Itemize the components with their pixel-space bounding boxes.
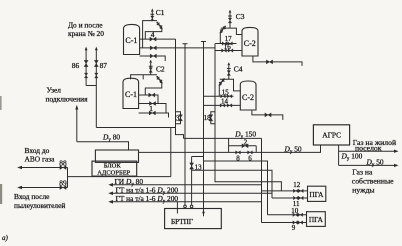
- valve 1: [149, 111, 155, 115]
- wire: C-2a inlet line (valves 17): [215, 43, 236, 45]
- vent candle C1: [150, 12, 154, 16]
- upper drier box: [95, 150, 138, 162]
- valves 16 (pair): [222, 49, 227, 52]
- vent candle C3: [228, 13, 232, 17]
- wire: drier box outlet / regeneration header: [192, 152, 204, 156]
- relief valve C-2b (diagonal, mirrored): [219, 78, 226, 86]
- valve 86 lower: [84, 73, 87, 78]
- vessel C-1 (lower separator): [123, 78, 139, 108]
- vessel C-1 (upper separator): [124, 24, 140, 54]
- BRTPG inlet circle (B3): [184, 205, 187, 208]
- valve 88: [60, 166, 66, 170]
- bus B3 (capped collector): [183, 44, 188, 205]
- wire: C-1a riser: [143, 21, 157, 48]
- wire: relief return C-2b: [218, 85, 220, 96]
- valves 15 (pair): [221, 95, 226, 98]
- wire: riser of crane 86: [85, 48, 87, 86]
- node arrow (узел подключения pointer): [76, 108, 78, 142]
- valves 10 (pair): [293, 213, 298, 216]
- wire: C-2a lower line (valves 16): [215, 50, 242, 52]
- wire: C-2b inlet line (valves 15): [204, 95, 234, 97]
- wire: branch y162.5 to PGA-2: [204, 161, 268, 215]
- valve on header (C-1a side): [150, 46, 156, 50]
- wire: valve 11 line: [272, 197, 308, 199]
- wire: branch y170.3 to PGA: [192, 170, 272, 198]
- wire: relief return C-1a: [145, 28, 162, 39]
- wire: Dy50 line to AGRS: [139, 145, 321, 152]
- valve 3: [179, 115, 183, 121]
- valve on C-2a drain: [266, 60, 272, 64]
- valve on C-1a drain: [150, 54, 156, 58]
- wire: blowdown header y48: [140, 47, 215, 49]
- wire: Dy80 line to adsorber unit: [77, 142, 129, 150]
- PGA box 2: [307, 212, 326, 227]
- inlet arrow 2: [17, 186, 22, 190]
- valve 6: [248, 151, 253, 154]
- wire: Dy150 main line: [184, 137, 262, 139]
- valve 87 (main): [94, 60, 98, 66]
- bus B7 (to Dy150 line): [215, 44, 281, 191]
- valves 17 (pair): [222, 42, 227, 45]
- relief valve C-2a (diagonal, mirrored): [220, 26, 227, 34]
- adsorber label: [97, 163, 130, 177]
- outlet ГТ2 arrow: [112, 201, 262, 203]
- label "Вход до АВО газа": [25, 146, 56, 164]
- wire: valve 12 line: [262, 190, 308, 192]
- relief valve C-1a (diagonal): [156, 22, 163, 30]
- relief valve C-1b (diagonal): [156, 76, 163, 84]
- wire: riser of crane 87: [95, 48, 97, 128]
- wire: C-2b lower line (valves 14): [204, 104, 241, 106]
- wire: C-2a riser: [221, 28, 242, 34]
- inlet arrow 1: [17, 166, 22, 170]
- wire: valve 10 line: [268, 214, 307, 216]
- wire: inlet header to adsorber: [68, 176, 171, 178]
- PGA box 1: [308, 186, 326, 201]
- vent candle C4: [227, 66, 231, 70]
- valve 18 bypass loop: [211, 112, 215, 124]
- wire: AGRS outlet drop: [338, 145, 340, 165]
- wire: C-1b drain line (valve 1): [139, 113, 169, 118]
- valves 12 (pair): [293, 189, 298, 192]
- wire: outlet arrow to settlement: [339, 150, 397, 152]
- vessel C-2 (lower): [240, 81, 256, 110]
- vent valve C2: [150, 67, 152, 75]
- vent valve C1: [151, 16, 153, 21]
- wire: C-2b riser: [220, 79, 241, 91]
- valve on C-1b outlet 1: [149, 93, 155, 97]
- outlet ГИ arrow: [112, 184, 262, 186]
- label "Газ на жилой поселок": [353, 138, 396, 153]
- label "Газ на собственные нужды": [352, 168, 394, 195]
- wire: valve 9 line: [262, 222, 307, 224]
- cap arrow on line 87: [95, 47, 98, 51]
- label "Узел подключения": [46, 86, 89, 104]
- wire: header from cranes to bus B1: [96, 127, 175, 129]
- scan smudge left edge: [0, 96, 2, 110]
- vessel C-2 (upper): [242, 27, 258, 56]
- bus B5 (capped collector to BRTPG): [201, 42, 206, 209]
- valve 3 bypass loop: [176, 112, 181, 124]
- wire: C-1b riser: [131, 75, 157, 80]
- valve 4: [150, 37, 156, 41]
- bus B4 (regeneration line, valve 13): [191, 157, 193, 206]
- valve 2 bypass: [229, 138, 257, 152]
- valve 87 lower: [95, 73, 98, 78]
- wire: inlet before AVO: [21, 167, 68, 169]
- valve 18: [209, 115, 213, 121]
- wire: outlet arrow own needs: [339, 164, 397, 166]
- wire: C-2b drain: [252, 110, 283, 120]
- valve on C-1b outlet 2: [149, 102, 155, 106]
- valves 11 (pair): [293, 196, 298, 199]
- wire: connector 86-87: [86, 85, 96, 87]
- wire: C-2a drain: [253, 56, 302, 66]
- wire: C-1a outlet line (valve 4): [140, 38, 176, 40]
- BRTPG inlet arrow (B5): [203, 209, 205, 217]
- wire: adsorber return riser: [170, 128, 172, 177]
- wire: blowdown collector drop: [261, 138, 263, 222]
- wire: relief return C-1b: [145, 83, 162, 95]
- AGRS box: [313, 125, 349, 145]
- adsorber unit box: [92, 161, 137, 176]
- valve 89: [60, 186, 66, 190]
- label "Вход после пылеуловителей": [14, 192, 65, 210]
- vent candle C2: [149, 63, 153, 67]
- valve 2: [242, 144, 248, 148]
- outlet ГТ1 arrow: [112, 192, 273, 194]
- bus B1 (collector to BRTPG): [176, 39, 184, 138]
- label "До и после крана № 20": [68, 21, 104, 38]
- BRTPG box: [165, 209, 222, 229]
- wire: C-1a drain line: [140, 56, 166, 61]
- valves 9 (pair): [293, 221, 298, 224]
- wire: C-1b outlet line 2: [139, 104, 166, 114]
- wire: C-1b outlet line 1: [139, 95, 158, 104]
- valve 8: [236, 151, 241, 154]
- cap arrow on line 86: [85, 47, 88, 51]
- wire: inlet after dust collectors: [21, 187, 68, 189]
- valve 13: [190, 163, 194, 169]
- wire: relief return C-2a: [219, 32, 221, 43]
- BRTPG inlet circle (B4): [190, 205, 193, 208]
- valve 86 (main): [84, 60, 88, 66]
- wire: BRTPG left inlet from GT2 line: [176, 202, 178, 214]
- vent valve C4: [228, 70, 230, 80]
- wire: connector 88-89: [67, 168, 69, 188]
- valves 14 (pair): [220, 104, 225, 107]
- vent valve C3: [229, 17, 231, 28]
- valve on C-2b drain: [265, 113, 271, 117]
